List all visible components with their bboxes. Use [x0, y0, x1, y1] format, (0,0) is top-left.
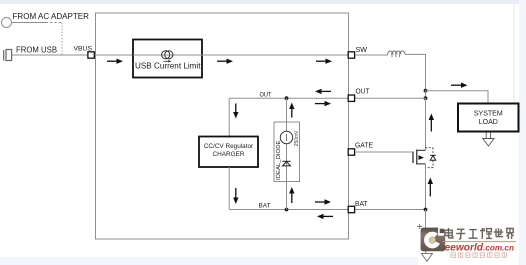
arrow flow right	[217, 59, 233, 64]
pin pad BAT	[348, 206, 354, 212]
ground under battery	[421, 248, 432, 261]
watermark red underline	[443, 241, 517, 243]
watermark slogan small characters	[451, 253, 507, 258]
电	[445, 228, 453, 238]
wire inner OUT drop to charger	[228, 98, 230, 136]
svg-text:FROM AC ADAPTER: FROM AC ADAPTER	[13, 11, 90, 21]
arrow flow up above ideal diode	[289, 103, 294, 118]
block U1 USB Current Limit	[133, 40, 202, 78]
watermark logo eeworld	[421, 227, 446, 251]
arrow flow right	[107, 59, 123, 64]
svg-text:CHARGER: CHARGER	[213, 151, 245, 158]
arrow flow up on rail	[428, 178, 433, 197]
junction node at rail / system load branch	[424, 89, 428, 93]
svg-text:BAT: BAT	[355, 201, 368, 208]
IC block outline	[96, 13, 349, 239]
工	[469, 230, 478, 239]
arrow flow down	[233, 188, 238, 204]
svg-text:CC/CV Regulator: CC/CV Regulator	[204, 143, 254, 150]
arrow flow up below ideal diode	[289, 187, 294, 203]
junction node rail/OUT	[424, 96, 428, 100]
body diode symbol	[430, 155, 436, 160]
arrow flow right	[451, 83, 468, 88]
wire current limit box to SW	[202, 54, 348, 56]
svg-text:LOAD: LOAD	[479, 119, 498, 126]
top blue band	[0, 0, 519, 4]
svg-text:GATE: GATE	[355, 143, 373, 150]
connector J2 USB	[4, 50, 12, 61]
arrow flow left above OUT	[315, 89, 331, 94]
svg-text:OUT: OUT	[356, 89, 371, 96]
source stub	[417, 163, 426, 165]
ideal diode box	[274, 122, 300, 182]
arrow flow right below OUT	[315, 101, 331, 106]
arrow flow left below BAT	[317, 214, 333, 219]
battery plus mark	[417, 224, 422, 229]
wire rail mosfet source to BAT junction	[425, 164, 427, 210]
程	[480, 228, 492, 239]
wire inside box	[286, 122, 288, 210]
faint page divider line	[513, 4, 515, 103]
bulk arrow	[419, 155, 425, 160]
svg-text:OUT: OUT	[260, 91, 272, 98]
ground under system load	[483, 133, 494, 147]
svg-text:USB Current Limit: USB Current Limit	[135, 61, 201, 71]
wire rail BAT to battery	[425, 210, 427, 231]
transistor Q1 PFET	[413, 148, 436, 168]
junction node BAT / ideal diode	[285, 208, 289, 212]
svg-text:FROM USB: FROM USB	[16, 45, 57, 55]
gate bar	[412, 152, 414, 163]
pin pad OUT	[348, 95, 354, 101]
channel bar	[416, 150, 418, 165]
pin pad GATE	[348, 149, 354, 155]
wire SW to inductor	[356, 54, 388, 56]
arrow flow right above BAT	[315, 199, 331, 204]
wire OUT line	[229, 97, 425, 99]
body diode dashed path	[426, 148, 434, 168]
svg-text:SYSTEM: SYSTEM	[474, 111, 503, 118]
arrow flow up on rail	[429, 114, 434, 132]
block SYSTEM LOAD	[458, 104, 519, 132]
connector J1 AC adapter	[2, 18, 12, 28]
wire rail OUT to mosfet drain	[425, 98, 427, 150]
wire AC adapter dotted drop	[61, 23, 63, 56]
drain stub	[417, 149, 426, 151]
wire inductor to rail	[405, 54, 426, 90]
inductor L1	[388, 51, 405, 54]
voltage source 250mV	[280, 131, 292, 143]
right blue band	[519, 0, 526, 265]
wire ideal diode vertical	[286, 98, 288, 209]
ideal diode D1 assembly	[274, 98, 300, 209]
界	[506, 228, 513, 239]
svg-text:250mV: 250mV	[294, 130, 300, 146]
wire GATE to mosfet	[356, 151, 413, 153]
wire AC adapter dashed	[46, 22, 62, 24]
bottom blue band	[0, 257, 418, 265]
diode symbol	[282, 161, 290, 166]
子	[456, 229, 465, 239]
wire charger to BAT line	[228, 167, 230, 210]
pin pad VBUS	[88, 52, 94, 58]
wire through current limit box	[133, 54, 202, 56]
pin pad SW	[348, 52, 354, 58]
arrow flow right	[316, 59, 332, 64]
block U2 CC/CV Regulator CHARGER	[199, 137, 258, 168]
svg-text:SW: SW	[356, 47, 368, 54]
battery B1 (hidden behind watermark)	[425, 230, 427, 251]
current source symbol	[162, 51, 173, 63]
watermark title 电子工程世界 (drawn strokes)	[445, 228, 514, 239]
wire USB to VBUS	[12, 54, 88, 56]
wire AC adapter	[12, 22, 47, 24]
wire BAT line	[229, 209, 425, 211]
世	[494, 228, 503, 236]
svg-text:eeworld.com.cn: eeworld.com.cn	[445, 242, 514, 253]
arrow flow down	[233, 104, 238, 119]
junction node OUT / ideal diode	[285, 96, 289, 100]
wire rail between branch and OUT	[425, 91, 427, 99]
wire VBUS to current limit box	[96, 54, 133, 56]
svg-text:IDEAL_DIODE: IDEAL_DIODE	[276, 140, 282, 180]
wire branch to system load	[426, 91, 489, 104]
svg-text:BAT: BAT	[259, 202, 271, 209]
junction node BAT rail	[424, 208, 428, 212]
